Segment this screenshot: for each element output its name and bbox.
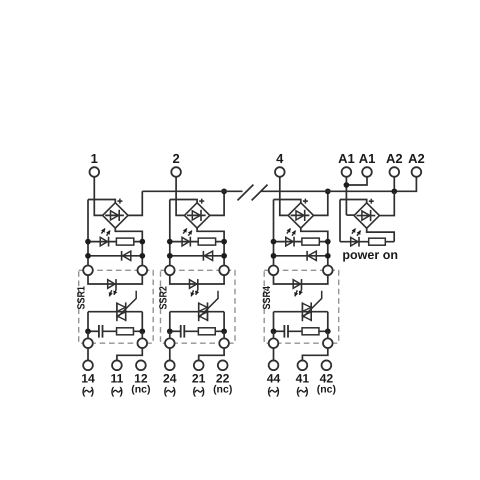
wire bridge minus to right rail — [301, 228, 328, 242]
svg-text:11: 11 — [110, 371, 123, 385]
SSR output circles — [269, 338, 279, 348]
junction dots LED line — [85, 239, 91, 245]
triac — [117, 291, 136, 321]
protection diode (points left) — [122, 251, 131, 261]
indicator LED channel 4 — [286, 228, 296, 246]
wire bus tap to bridge AC input right — [314, 191, 328, 215]
wire A2 to bus — [393, 177, 395, 192]
SSR output circles — [165, 338, 175, 348]
junction dots diode line — [271, 253, 277, 259]
svg-text:14: 14 — [81, 371, 95, 385]
wire left rail — [169, 200, 171, 266]
junction A2 bus — [391, 188, 397, 194]
svg-text:A1: A1 — [359, 151, 376, 166]
wire left rail — [273, 200, 275, 266]
bus break slashes — [238, 185, 254, 201]
wire terminal 2 to bridge AC input — [176, 177, 184, 216]
svg-text:power on: power on — [342, 248, 398, 262]
svg-text:41: 41 — [296, 371, 310, 385]
wire snubber line — [274, 330, 285, 332]
protection diode (points left) — [203, 251, 212, 261]
junction dots diode line — [167, 253, 173, 259]
bottom terminal circles — [165, 360, 175, 370]
snubber capacitor — [180, 325, 182, 338]
svg-text:(nc): (nc) — [131, 383, 150, 395]
plus sign — [117, 200, 122, 202]
snubber capacitor — [98, 325, 100, 338]
wire bus tap to bridge AC input right — [128, 191, 142, 215]
svg-text:A2: A2 — [386, 151, 403, 166]
opto LED (emits downward) — [293, 279, 303, 296]
bottom terminal circles — [269, 360, 279, 370]
wires snubber to output circles — [273, 331, 275, 338]
wire power LED line — [340, 241, 394, 243]
wire opto LED path — [274, 275, 328, 284]
terminal sublabels — [82, 385, 94, 397]
wire bridge minus to right rail — [115, 228, 142, 242]
top terminal circle — [90, 167, 100, 177]
A2 bus wire (left of break) — [142, 190, 242, 192]
indicator LED channel 2 — [182, 228, 192, 246]
triac — [199, 291, 218, 321]
SSR input terminal circles — [165, 266, 175, 276]
power-on resistor — [369, 238, 386, 245]
svg-text:44: 44 — [267, 371, 281, 385]
wire power plus rail — [340, 200, 367, 203]
wire triac line and drops — [88, 312, 142, 332]
SSR output circles — [83, 338, 93, 348]
wire output to terminal 11 — [117, 348, 142, 360]
junction A1 tie — [344, 182, 350, 188]
SSR input terminal circles — [269, 266, 279, 276]
wire output to terminal 24 — [169, 348, 171, 360]
wire terminal 1 to bridge AC input — [94, 177, 102, 216]
wire output to terminal 21 — [199, 348, 224, 360]
plus sign — [199, 200, 204, 202]
snubber resistor — [117, 328, 134, 335]
wire triac line and drops — [274, 312, 328, 332]
bridge rectifier — [103, 203, 128, 228]
A2 bus wire (right of break) — [261, 177, 416, 192]
wire plus rail from bridge top — [170, 200, 197, 203]
resistor (LED series) — [116, 238, 133, 245]
wires snubber to output circles — [169, 331, 171, 338]
bottom terminal circles — [83, 360, 93, 370]
snubber capacitor — [283, 325, 285, 338]
wire A1 pair tie — [346, 177, 367, 215]
junction on A2 bus — [221, 188, 227, 194]
wire snubber line — [88, 330, 99, 332]
svg-text:21: 21 — [192, 371, 206, 385]
wire opto LED path — [88, 275, 142, 284]
junction dots snubber — [85, 328, 91, 334]
wire indicator LED line — [274, 241, 328, 243]
svg-text:SSR1: SSR1 — [76, 286, 88, 310]
junction dots snubber — [167, 328, 173, 334]
snubber resistor — [302, 328, 319, 335]
wire power left rail — [339, 200, 341, 242]
triac — [302, 291, 321, 321]
SSR1 dashed module box — [79, 270, 154, 343]
wire A1 to power bridge AC input — [346, 214, 354, 216]
svg-text:4: 4 — [276, 151, 284, 166]
wire power bridge to A2 bus — [379, 191, 394, 215]
wire protection diode line — [274, 255, 328, 257]
wire right rail — [223, 242, 225, 266]
svg-text:A2: A2 — [408, 151, 425, 166]
wire power bridge minus loop — [367, 228, 395, 241]
top terminal circle — [275, 167, 285, 177]
svg-text:(nc): (nc) — [213, 383, 232, 395]
wire indicator LED line — [170, 241, 224, 243]
SSR4 dashed module box — [264, 270, 339, 343]
top terminal circle — [171, 167, 181, 177]
wire opto LED path — [170, 275, 224, 284]
wire protection diode line — [88, 255, 142, 257]
terminal sublabels — [267, 385, 279, 397]
wire left rail — [87, 200, 89, 266]
wire plus rail from bridge top — [88, 200, 115, 203]
wire right rail — [327, 242, 329, 266]
SSR2 dashed module box — [161, 270, 236, 343]
plus sign — [303, 200, 308, 202]
wire right rail — [141, 242, 143, 266]
wire terminal 4 to bridge AC input — [280, 177, 288, 216]
power-on bridge rectifier — [354, 203, 379, 228]
wire indicator LED line — [88, 241, 142, 243]
svg-text:2: 2 — [172, 151, 179, 166]
snubber resistor — [198, 328, 215, 335]
svg-text:(nc): (nc) — [317, 383, 336, 395]
wire triac line and drops — [170, 312, 224, 332]
junction dots LED line — [271, 239, 277, 245]
svg-text:A1: A1 — [338, 151, 355, 166]
A terminal circles — [342, 167, 352, 177]
junction dots LED line — [167, 239, 173, 245]
junction on A2 bus — [325, 188, 331, 194]
svg-text:SSR4: SSR4 — [261, 286, 273, 310]
svg-text:1: 1 — [91, 151, 98, 166]
wire bridge minus to right rail — [197, 228, 224, 242]
indicator LED channel 1 — [100, 228, 110, 246]
SSR input terminal circles — [83, 266, 93, 276]
wire bus tap to bridge AC input right — [210, 191, 224, 215]
svg-text:24: 24 — [163, 371, 177, 385]
power-on LED — [351, 229, 361, 247]
terminal sublabels — [164, 385, 176, 397]
resistor (LED series) — [198, 238, 215, 245]
wires snubber to output circles — [87, 331, 89, 338]
opto LED (emits downward) — [108, 279, 118, 296]
protection diode (points left) — [307, 251, 316, 261]
plus sign power bridge — [369, 200, 374, 202]
wire plus rail from bridge top — [274, 200, 301, 203]
wire protection diode line — [170, 255, 224, 257]
bridge rectifier — [288, 203, 313, 228]
wire output to terminal 14 — [87, 348, 89, 360]
bridge rectifier — [184, 203, 209, 228]
junction dots diode line — [85, 253, 91, 259]
svg-text:SSR2: SSR2 — [157, 286, 169, 310]
wire snubber line — [170, 330, 181, 332]
junction dots snubber — [271, 328, 277, 334]
opto LED (emits downward) — [190, 279, 200, 296]
wire output to terminal 41 — [302, 348, 327, 360]
resistor (LED series) — [302, 238, 319, 245]
wire output to terminal 44 — [273, 348, 275, 360]
